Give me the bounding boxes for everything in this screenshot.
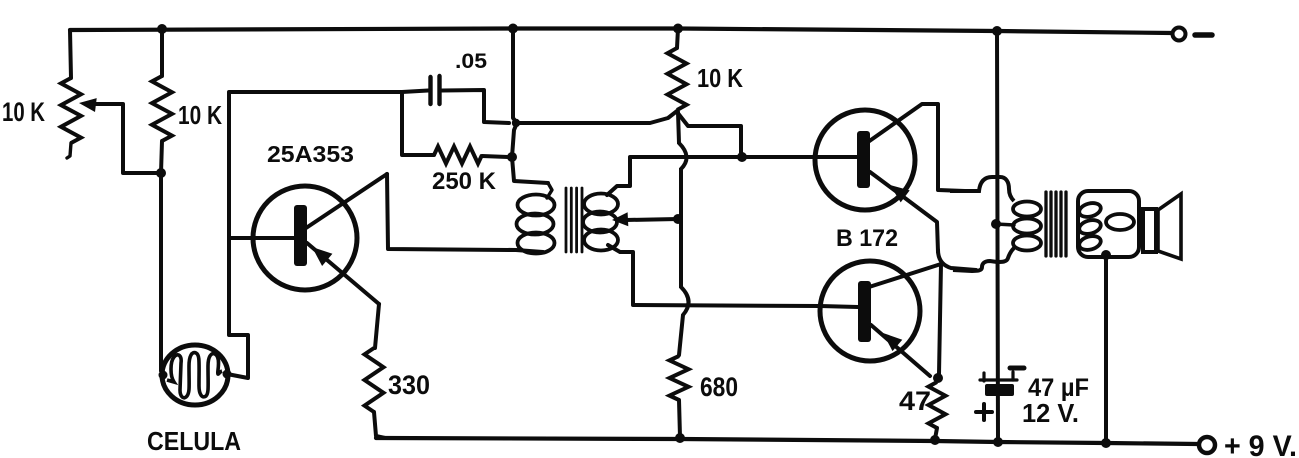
T1 centre-tap arrow and wire — [612, 212, 628, 226]
transistor Q3 B172 (lower) — [820, 261, 920, 361]
resistor R2 10K — [160, 29, 164, 76]
label: C2 polarity plus — [976, 410, 992, 414]
node: R3 right junction — [507, 152, 517, 162]
T1 secondary coil — [584, 194, 618, 215]
photocell CELULA (LDR) — [162, 345, 228, 405]
T2 secondary loops — [1078, 201, 1103, 219]
wire: supply column from top rail to bottom rail — [997, 31, 998, 442]
transformer T2 output: primary outline — [950, 177, 1014, 271]
node: rail junction at supply column — [993, 437, 1003, 447]
svg-text:.05: .05 — [455, 50, 487, 73]
node: rail junction at R2 top — [157, 24, 167, 34]
node: rail junction at R7 — [930, 435, 940, 445]
speaker — [1143, 209, 1156, 252]
wire: lower base line to Q3 — [633, 305, 820, 306]
resistor R6 330 — [365, 348, 384, 412]
svg-text:10 K: 10 K — [697, 63, 743, 93]
svg-text:+ 9 V.: + 9 V. — [1224, 430, 1297, 458]
wire: photocell right terminal jog up to base network — [227, 92, 402, 378]
wire: bottom +9V rail — [376, 438, 1198, 444]
wire: upper base line to Q2 — [630, 155, 815, 159]
T2 secondary outline — [1078, 191, 1139, 257]
svg-text:B 172: B 172 — [836, 225, 898, 252]
svg-text:250 K: 250 K — [432, 168, 497, 195]
wiper arrow of R1 — [79, 98, 97, 112]
node: Q3 emitter / R7 top junction — [933, 373, 943, 383]
wire: bias vertical with hop over base line — [678, 112, 689, 355]
wire: T1 secondary bottom to lower base line — [608, 245, 633, 304]
svg-text:25A353: 25A353 — [267, 141, 354, 167]
Q1 emitter diagonal with arrow — [307, 243, 379, 304]
terminal: +9V supply — [1199, 437, 1215, 453]
resistor R3 250K (feedback) — [402, 92, 434, 155]
Q3 collector diagonal to junction — [869, 264, 941, 287]
T2 primary loops — [1013, 202, 1041, 217]
node: rail junction at feedback drop — [508, 24, 518, 34]
svg-text:47: 47 — [899, 386, 931, 416]
node: rail junction at supply column — [992, 26, 1002, 36]
Q1 collector diagonal — [306, 174, 387, 228]
node: T2 centre tap on supply column — [991, 219, 1001, 229]
svg-text:10 K: 10 K — [178, 100, 222, 130]
node: bias tap on upper base line — [737, 152, 747, 162]
potentiometer R1 10K (left) — [70, 30, 71, 78]
Q2 collector to T2 primary top — [868, 104, 965, 191]
wire: Q1 emitter down to R6 — [375, 304, 379, 348]
wire: emitter junction to T2 primary bottom — [938, 250, 976, 270]
T1 core — [565, 188, 568, 252]
capacitor C2 47uF electrolytic — [980, 378, 1017, 381]
wire: junction down to photocell left terminal — [161, 173, 164, 373]
transistor Q2 B172 (upper) — [815, 110, 915, 210]
transistor Q1 25A353 — [253, 186, 357, 290]
terminal: negative supply — [1173, 28, 1186, 41]
wire: base line into Q1 — [229, 236, 256, 240]
label: C2 polarity minus — [1010, 366, 1024, 371]
Q3 emitter diagonal with arrow — [871, 325, 930, 376]
wire: drop from top rail through feedback node to T1 primary top — [512, 29, 548, 184]
wire: top negative supply rail — [70, 29, 1172, 34]
node: rail junction at R5 — [675, 433, 685, 443]
node: T2 secondary bottom junction — [1101, 250, 1111, 260]
wire: T1 secondary top to upper base line — [607, 158, 630, 195]
wire: bias branch to upper base line — [677, 112, 741, 154]
svg-text:10 K: 10 K — [2, 97, 45, 127]
T2 core — [1044, 192, 1047, 256]
wire: series junction down to Q3 emitter node — [938, 264, 941, 377]
svg-text:12 V.: 12 V. — [1022, 398, 1079, 428]
wire: T2 secondary bottom to +9V rail — [1104, 255, 1108, 442]
svg-text:CELULA: CELULA — [147, 426, 241, 456]
node: R2 bottom / wiper junction — [156, 168, 166, 178]
svg-text:680: 680 — [700, 372, 738, 402]
label: minus sign — [1195, 32, 1212, 38]
svg-text:330: 330 — [388, 370, 430, 400]
resistor R5 680 — [670, 356, 689, 400]
wire: Q1 collector to T1 primary bottom — [387, 174, 543, 252]
node: rail junction at R4 top — [673, 24, 683, 34]
node: rail junction at T2 secondary return — [1101, 438, 1111, 448]
node: T1 centre tap junction — [673, 214, 683, 224]
capacitor C1 .05 — [402, 91, 428, 93]
transformer T1 interstage: primary coil — [518, 195, 555, 216]
node: crossing bulge — [512, 119, 520, 127]
wire: feedback node to R4 bottom — [517, 111, 677, 123]
resistor R7 47 — [929, 382, 946, 428]
Q2 emitter diagonal with arrow — [870, 172, 938, 252]
resistor R4 10K (bias) — [677, 29, 678, 49]
